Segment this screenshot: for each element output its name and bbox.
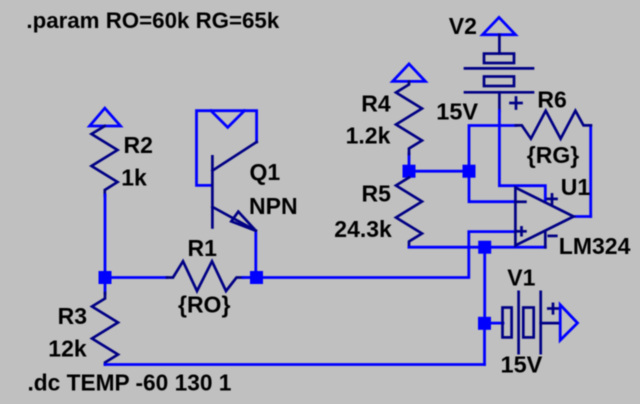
svg-text:24.3k: 24.3k <box>334 216 392 242</box>
svg-text:V1: V1 <box>507 264 535 290</box>
node B junction <box>250 271 263 284</box>
resistor R2 <box>92 126 118 196</box>
wire inverting input <box>469 178 515 202</box>
svg-text:12k: 12k <box>48 335 87 361</box>
wire R2 bottom to node A <box>104 195 107 273</box>
svg-text:{RO}: {RO} <box>178 292 230 318</box>
wire feedback vertical <box>589 125 592 216</box>
wire R5 bottom to op-amp V- <box>409 246 545 249</box>
net flag (Q1 collector) <box>211 111 244 128</box>
svg-text:R6: R6 <box>537 87 566 113</box>
node D junction <box>403 165 416 178</box>
net flag (V2 top) <box>483 17 516 34</box>
wire emitter to node B <box>254 231 257 272</box>
svg-text:NPN: NPN <box>249 193 298 219</box>
wire V2 to op-amp V+ <box>499 111 545 203</box>
wire node D to node C <box>414 170 464 173</box>
wire R4 bottom <box>408 154 411 166</box>
svg-text:15V: 15V <box>501 352 543 378</box>
wire Q1 collector to base loop <box>197 111 257 186</box>
wire op-amp output <box>574 215 591 218</box>
wire node A to R3 <box>104 283 107 294</box>
wire bottom rail <box>105 363 485 366</box>
svg-text:1k: 1k <box>121 165 147 191</box>
svg-text:Q1: Q1 <box>250 159 281 185</box>
svg-text:R1: R1 <box>188 235 218 261</box>
resistor R1 <box>167 261 243 291</box>
wire R1 to node B <box>243 276 251 279</box>
battery V2 <box>465 35 533 111</box>
net flag (R2 top) <box>90 108 121 126</box>
node A junction <box>99 271 112 284</box>
battery V1 <box>503 292 560 353</box>
resistor R3 <box>92 293 118 365</box>
resistor R5 <box>396 178 422 248</box>
wire node C up to R6 <box>469 126 516 166</box>
svg-text:LM324: LM324 <box>559 233 631 259</box>
wire node F to bottom rail <box>483 330 486 365</box>
svg-text:R3: R3 <box>58 303 87 329</box>
wire node F to V1 <box>491 322 504 325</box>
svg-text:{RG}: {RG} <box>527 142 579 168</box>
resistor R6 <box>516 111 591 139</box>
svg-text:15V: 15V <box>436 98 478 124</box>
node E junction <box>478 241 491 254</box>
transistor Q1 <box>212 142 256 231</box>
svg-text:R4: R4 <box>361 91 391 117</box>
svg-text:R5: R5 <box>362 180 392 206</box>
node F junction <box>478 317 491 330</box>
svg-text:.param RO=60k RG=65k: .param RO=60k RG=65k <box>26 8 279 33</box>
svg-text:1.2k: 1.2k <box>346 123 391 149</box>
net flag (R4 top) <box>393 64 426 82</box>
net flag (V1 right) <box>560 305 577 340</box>
svg-text:R2: R2 <box>124 132 153 158</box>
node C junction <box>463 165 476 178</box>
wire node B to op-amp column <box>262 232 515 278</box>
wire node E down to node F <box>483 253 486 317</box>
wire node A to R1 <box>110 276 167 279</box>
svg-text:V2: V2 <box>449 13 477 39</box>
resistor R4 <box>396 81 422 154</box>
op-amp U1 <box>515 188 573 248</box>
svg-text:.dc TEMP -60 130 1: .dc TEMP -60 130 1 <box>28 370 232 396</box>
svg-text:U1: U1 <box>561 174 591 200</box>
